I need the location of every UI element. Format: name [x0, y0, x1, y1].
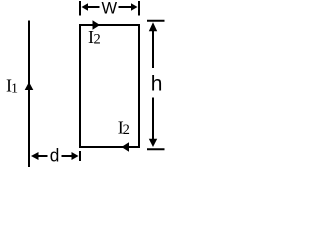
dimension W: right arrow [119, 3, 138, 10]
dimension h: label h [151, 73, 163, 96]
dimension h: bottom tick [147, 148, 165, 150]
svg-text:W: W [102, 0, 118, 18]
dimension h: bottom arrow (down) [149, 98, 157, 148]
dimension d: right tick [79, 151, 81, 161]
dimension h: top tick [147, 20, 165, 22]
dimension d: label d [50, 146, 60, 166]
dimension W: left tick [79, 1, 81, 16]
dimension W: label W [102, 0, 118, 18]
wire I1 (long straight wire) [28, 21, 30, 168]
svg-text:1: 1 [11, 81, 18, 96]
svg-text:2: 2 [123, 122, 130, 138]
loop: rectangle carrying I2 [80, 25, 139, 147]
svg-text:2: 2 [94, 32, 101, 48]
current arrow I2 bottom edge (leftward) [122, 142, 130, 151]
svg-text:h: h [151, 73, 163, 96]
dimension h: top arrow (up) [149, 22, 157, 68]
label I1 [6, 76, 18, 97]
dimension W: right tick [138, 1, 140, 16]
svg-text:d: d [50, 146, 60, 166]
label I2 (bottom) [118, 118, 130, 139]
current arrow I1 (upward) [25, 82, 34, 90]
label I2 (top) [88, 27, 101, 48]
dimension W: left arrow [82, 3, 100, 10]
current arrow I2 top edge (rightward) [93, 20, 101, 29]
dimension d: right arrow [62, 152, 79, 160]
dimension d: left arrow [31, 152, 48, 160]
